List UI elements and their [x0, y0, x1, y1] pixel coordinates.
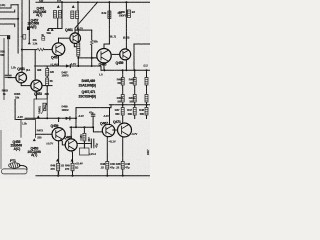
Q453 emitter right	[42, 85, 52, 87]
resistor R453	[71, 11, 74, 19]
cap C481	[77, 143, 91, 145]
arrow over R451	[57, 5, 60, 8]
transistor Q465b	[65, 139, 77, 151]
PT1 lamp	[9, 163, 20, 168]
resistor R455	[108, 11, 111, 19]
wire y118.3	[25, 117, 76, 119]
emitter rail y70.3	[101, 69, 150, 71]
Q471 base	[113, 129, 118, 131]
wire drop x126.4 Q459 collector	[125, 2, 127, 49]
collector rail y44	[104, 43, 109, 45]
bottom bus	[36, 175, 150, 177]
Q455 emitter to Q465b base	[61, 140, 66, 145]
Q459 base	[111, 53, 120, 55]
wire drop x78	[77, 2, 79, 30]
transistor Q467	[102, 124, 114, 136]
col B zigzag	[91, 30, 93, 40]
zigzag resistor R on base run	[37, 48, 44, 51]
Q451 collector top merge	[20, 71, 23, 73]
Q451 emitter down	[21, 83, 31, 86]
Q465a emitter	[103, 63, 105, 70]
cap in bias	[91, 114, 94, 127]
arrow on y118.3	[37, 115, 40, 118]
node dot bus x62	[61, 1, 63, 3]
bias rail y107.6	[76, 107, 111, 109]
Q455 base wire	[36, 133, 53, 135]
wire x15.1 down	[15, 100, 21, 120]
wire y30.1	[76, 29, 92, 31]
transistor Q465a	[97, 49, 111, 63]
diagonal collector wire	[75, 2, 98, 33]
wire corner right y44	[134, 44, 150, 70]
module blob	[7, 35, 10, 39]
resistor on x126.4	[127, 10, 130, 18]
Q471 emitter	[122, 137, 124, 176]
arrow end x29.3	[28, 41, 31, 44]
transistor Q453	[31, 80, 42, 91]
label WB	[47, 28, 50, 31]
top power bus	[36, 1, 150, 3]
wire y18.7	[0, 18, 18, 20]
Q465a base	[92, 57, 97, 59]
Q457 collector up	[58, 38, 60, 43]
resistor R454	[76, 11, 79, 19]
wire drop x62	[61, 2, 63, 28]
transistor Q451	[16, 72, 27, 83]
left edge dark	[0, 130, 2, 169]
node dot bus x78	[77, 1, 79, 3]
bus vertical x22	[21, 0, 23, 72]
Q461 emitter	[74, 43, 78, 47]
node dot (22,49.6)	[21, 49, 23, 51]
Q467 emitter	[106, 137, 108, 176]
mid rail y66	[35, 65, 101, 67]
resistor R451	[54, 11, 57, 19]
transistor Q461	[70, 33, 81, 44]
Q467 collector	[109, 108, 111, 125]
Q455 collector	[58, 118, 60, 121]
PT1 wire loop	[2, 169, 28, 174]
diode D459	[66, 117, 70, 120]
resistor R452	[59, 11, 62, 19]
Q461 base wire	[59, 37, 71, 39]
base run y49.6	[22, 49, 37, 51]
transistor Q455	[52, 128, 65, 141]
wire drop x109.4	[108, 2, 110, 44]
arrow below box	[33, 138, 36, 141]
arrow over R453	[72, 5, 75, 8]
transistor Q471	[118, 123, 132, 137]
diode D457	[66, 64, 70, 67]
jog into bias rail	[110, 105, 112, 108]
wire y12	[0, 10, 15, 12]
small cap on x22	[23, 35, 26, 40]
Q457 emitter down	[58, 56, 60, 67]
connector blob right	[27, 27, 30, 31]
below-rail clusters	[122, 105, 124, 124]
wire y127.2 to Q467	[70, 127, 102, 132]
Q453 collector up	[34, 50, 36, 81]
Q465b collector up	[70, 127, 72, 139]
node dot bus x109.4	[108, 1, 110, 3]
small box	[80, 148, 90, 155]
base rail y57.9	[78, 57, 97, 59]
col x122.7	[122, 70, 124, 105]
module edge x8	[7, 39, 9, 75]
wire y24	[0, 24, 15, 27]
capacitor C451	[5, 75, 11, 77]
Q465b emitter down	[71, 151, 72, 176]
col x146.5	[146, 70, 148, 105]
module edge x4	[3, 38, 5, 100]
transistor Q457	[52, 43, 65, 56]
transistor Q459	[120, 49, 131, 60]
Q453 emitter down	[35, 91, 37, 99]
resistor col A	[77, 30, 79, 43]
Q455 emitter down	[58, 141, 60, 176]
jog to rail	[100, 66, 102, 70]
node dot (18.1,18.9)	[17, 18, 19, 20]
col x134.7	[134, 70, 136, 105]
Q459 emitter	[125, 59, 127, 70]
wire WB stub	[49, 28, 62, 30]
wire stair top	[0, 5, 18, 8]
vertical x18.1	[17, 5, 19, 53]
bus vertical x29.3	[28, 0, 30, 42]
node dot bus x126.4	[125, 1, 127, 3]
bottom res boxes	[106, 162, 109, 170]
